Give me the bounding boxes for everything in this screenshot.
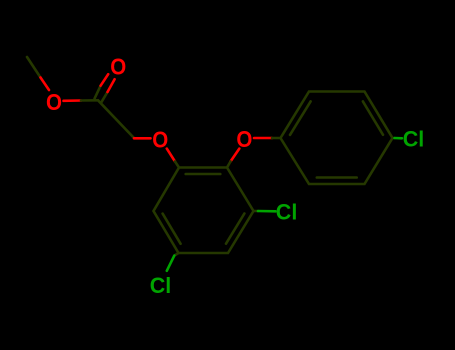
atom label ester O xyxy=(46,89,62,115)
atom label ether O1 xyxy=(152,126,168,152)
bond ether O1 to ring1 C, oxygen part xyxy=(167,149,175,162)
bond carbonyl C to methylene CH2 xyxy=(98,100,134,138)
ring1 inner double-bond line, lower-left edge xyxy=(163,214,181,244)
bond ether O2 to ring2 C, oxygen part xyxy=(254,137,272,140)
bond CH2 to ether O1 xyxy=(134,137,151,140)
ring1 inner double-bond line, top edge xyxy=(186,173,221,176)
bond ring1 to lower-left Cl, carbon part xyxy=(174,253,178,256)
svg-text:O: O xyxy=(152,126,168,152)
bond ether O2 to ring1 C, carbon part xyxy=(227,162,231,168)
bond ester O to carbonyl C, oxygen half xyxy=(64,99,82,102)
C=O double bond right line, oxygen half xyxy=(108,79,115,92)
bond ester O to carbonyl C, carbon half xyxy=(81,99,98,102)
bond ring2 to Cl, chlorine half xyxy=(395,137,402,140)
right chlorophenyl benzene ring xyxy=(281,92,393,185)
atom label carbonyl O xyxy=(110,53,126,79)
bond ring1 to lower-left Cl, chlorine part xyxy=(167,256,175,271)
bond ring2 to Cl, carbon half xyxy=(393,137,395,140)
svg-text:O: O xyxy=(236,126,252,152)
svg-text:Cl: Cl xyxy=(403,126,425,151)
bond ether O2 to ring1 C, oxygen part xyxy=(231,149,240,162)
C=O double bond left line, carbon half xyxy=(95,86,101,99)
bond ring1 to right Cl, chlorine half xyxy=(258,210,276,213)
ring2 inner double-bond line, bottom edge xyxy=(317,176,357,179)
svg-text:Cl: Cl xyxy=(150,273,172,298)
bond ether O2 to ring2 C, carbon part xyxy=(272,137,281,140)
bond methyl C to ester O, oxygen half xyxy=(41,78,50,91)
bond ether O1 to ring1 C, carbon part xyxy=(175,162,179,168)
ring2 inner double-bond line, upper-right edge xyxy=(363,101,383,134)
bond ring1 to right Cl, carbon half xyxy=(254,210,259,213)
ring2 inner double-bond line, upper-left edge xyxy=(290,101,311,134)
ring1 inner double-bond line, lower-right edge xyxy=(226,214,244,244)
atom label Cl on ring2 xyxy=(403,126,425,151)
svg-text:O: O xyxy=(110,53,126,79)
bond methyl C to ester O, carbon half xyxy=(27,57,41,78)
atom label Cl on ring1 right xyxy=(276,199,298,224)
C=O double bond left line, oxygen half xyxy=(101,74,109,86)
atom label Cl on ring1 lower-left xyxy=(150,273,172,298)
svg-text:O: O xyxy=(46,89,62,115)
svg-text:Cl: Cl xyxy=(276,199,298,224)
central benzene ring xyxy=(154,168,254,254)
C=O double bond right line, carbon half xyxy=(101,92,107,102)
atom label ether O2 xyxy=(236,126,252,152)
